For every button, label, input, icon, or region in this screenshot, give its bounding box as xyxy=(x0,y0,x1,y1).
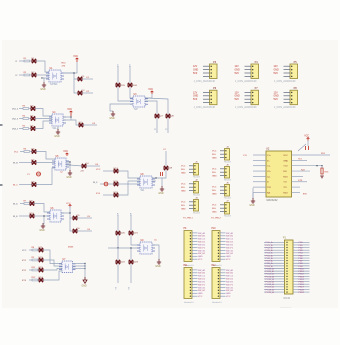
svg-text:U2: U2 xyxy=(266,147,270,151)
svg-text:SW_C1: SW_C1 xyxy=(198,239,206,241)
ground xyxy=(39,223,45,232)
svg-text:Headr3: Headr3 xyxy=(193,212,201,215)
wire xyxy=(19,215,30,217)
wire xyxy=(83,124,97,126)
wire xyxy=(321,166,323,168)
svg-text:GND: GND xyxy=(109,118,114,120)
svg-text:SW_E1: SW_E1 xyxy=(198,244,206,246)
svg-text:VCC: VCC xyxy=(212,151,217,153)
wire xyxy=(118,181,140,195)
wire xyxy=(86,165,100,167)
wire xyxy=(117,66,119,83)
svg-text:J_CON_JACKDC40: J_CON_JACKDC40 xyxy=(235,80,257,83)
wire xyxy=(145,98,168,114)
wire xyxy=(108,183,114,185)
wire xyxy=(152,178,162,184)
svg-text:SW_B1: SW_B1 xyxy=(198,236,206,238)
wire xyxy=(253,181,266,183)
wire xyxy=(43,269,62,271)
svg-text:Header10: Header10 xyxy=(212,301,222,304)
svg-text:SW_D1: SW_D1 xyxy=(198,242,206,244)
svg-text:VCC: VCC xyxy=(198,296,203,298)
diode D5 xyxy=(31,125,36,130)
diode D12 xyxy=(39,257,44,262)
svg-text:GND: GND xyxy=(212,158,217,160)
svg-text:SW_H1: SW_H1 xyxy=(226,253,234,255)
connector P5 xyxy=(274,61,298,83)
wire xyxy=(34,215,50,217)
junction xyxy=(69,161,70,162)
opto-coupler U9 xyxy=(137,240,155,254)
svg-text:T1O: T1O xyxy=(283,166,287,168)
svg-text:J_CON_JACKDC40: J_CON_JACKDC40 xyxy=(194,106,216,109)
wire xyxy=(19,118,23,120)
diode D11 xyxy=(39,247,44,252)
connector J2 xyxy=(181,180,201,197)
svg-text:GND: GND xyxy=(226,256,231,258)
wire xyxy=(84,264,86,278)
svg-text:DTR: DTR xyxy=(298,180,303,182)
wire xyxy=(70,218,73,231)
resistor R13 xyxy=(321,168,329,174)
junction xyxy=(73,72,74,73)
wire xyxy=(29,128,31,130)
diode D4 xyxy=(31,115,36,120)
svg-text:R2I: R2I xyxy=(267,192,271,194)
svg-text:SW_A1: SW_A1 xyxy=(198,269,206,272)
svg-text:GND: GND xyxy=(212,194,217,196)
svg-text:~~~~~~~: ~~~~~~~ xyxy=(280,305,292,309)
svg-text:PC16_A: PC16_A xyxy=(266,283,275,286)
wire xyxy=(19,74,24,76)
svg-text:GND: GND xyxy=(198,293,203,295)
svg-text:4N35: 4N35 xyxy=(68,247,74,249)
ground xyxy=(249,198,255,207)
svg-text:SIG: SIG xyxy=(212,208,216,210)
svg-text:TLP: TLP xyxy=(134,109,139,111)
transistor Q1 xyxy=(78,76,85,81)
resistor R7 xyxy=(24,200,30,204)
wire xyxy=(156,118,158,133)
svg-text:5V0: 5V0 xyxy=(193,73,198,75)
svg-text:T2O: T2O xyxy=(267,187,271,189)
svg-text:VCC: VCC xyxy=(226,259,231,261)
wire xyxy=(30,151,32,153)
svg-text:J_CON_JACKDC40: J_CON_JACKDC40 xyxy=(274,80,296,83)
svg-text:12V: 12V xyxy=(235,92,240,94)
wire xyxy=(252,188,254,199)
connector P6 xyxy=(193,87,217,109)
svg-text:12V: 12V xyxy=(193,66,198,68)
svg-text:R1I: R1I xyxy=(283,171,287,173)
ground xyxy=(82,277,88,288)
svg-text:SW_D1: SW_D1 xyxy=(226,279,234,281)
ground xyxy=(158,186,164,195)
svg-text:TO_PNL1: TO_PNL1 xyxy=(183,218,193,220)
junction xyxy=(84,268,85,269)
svg-text:VCC: VCC xyxy=(283,155,288,157)
svg-text:R1O: R1O xyxy=(283,176,288,178)
wire xyxy=(37,259,40,261)
svg-text:GND: GND xyxy=(82,286,87,288)
svg-text:J_CON_JACKDC40: J_CON_JACKDC40 xyxy=(194,80,216,83)
diode D14 xyxy=(39,277,44,282)
wire xyxy=(253,154,266,156)
svg-text:SW_F1: SW_F1 xyxy=(198,284,206,286)
wire xyxy=(292,170,311,172)
connector P12 xyxy=(212,265,235,304)
svg-text:GND: GND xyxy=(155,266,160,268)
power VCC xyxy=(67,109,72,116)
svg-text:VCC: VCC xyxy=(181,166,186,168)
connector P11 xyxy=(184,265,207,304)
connector P1 xyxy=(264,237,310,300)
wire xyxy=(20,151,24,153)
junction xyxy=(117,247,118,248)
svg-text:SW_E1: SW_E1 xyxy=(226,281,234,283)
svg-text:GND: GND xyxy=(249,205,254,207)
power VCC xyxy=(73,56,78,62)
diode D17 xyxy=(114,168,119,173)
svg-text:Headr3: Headr3 xyxy=(224,197,232,200)
diode D2 xyxy=(32,72,37,77)
wire xyxy=(74,79,78,93)
svg-text:GND: GND xyxy=(181,191,186,193)
wire xyxy=(292,159,308,161)
svg-text:PC13_A: PC13_A xyxy=(266,275,275,278)
wire xyxy=(70,165,82,166)
diode D21 xyxy=(129,231,139,235)
svg-text:GND: GND xyxy=(193,96,198,98)
ground xyxy=(54,129,60,138)
transistor Q6 xyxy=(73,228,80,233)
wire xyxy=(82,92,93,94)
wire xyxy=(43,216,44,224)
svg-text:VCC: VCC xyxy=(226,296,231,298)
svg-text:VCC: VCC xyxy=(67,109,72,111)
diode D23 xyxy=(129,260,139,264)
svg-text:IN_F: IN_F xyxy=(93,182,98,184)
svg-text:IN_B: IN_B xyxy=(13,163,18,165)
wire xyxy=(69,166,71,171)
wire xyxy=(100,183,104,185)
diode D22 xyxy=(116,260,126,264)
svg-text:Headr3: Headr3 xyxy=(224,179,232,182)
svg-text:1N2_2: 1N2_2 xyxy=(12,119,19,121)
svg-text:PC7_A: PC7_A xyxy=(266,260,273,263)
svg-text:SW_D1: SW_D1 xyxy=(198,279,206,281)
svg-text:PC15_A: PC15_A xyxy=(266,281,275,284)
connector P8 xyxy=(274,87,298,109)
wire xyxy=(252,193,254,199)
svg-text:GND: GND xyxy=(66,177,71,179)
svg-text:PC0_A: PC0_A xyxy=(266,241,273,244)
wire xyxy=(165,151,167,166)
wire xyxy=(152,180,156,182)
connector J5 xyxy=(212,165,232,182)
net label edge mark xyxy=(0,184,3,186)
wire xyxy=(63,120,79,125)
opto-coupler U8 xyxy=(137,174,155,192)
wire xyxy=(29,108,31,110)
svg-text:IN_D: IN_D xyxy=(13,204,18,206)
svg-text:SW_A1: SW_A1 xyxy=(226,269,234,272)
svg-text:SIG: SIG xyxy=(181,169,185,171)
svg-text:PC17_A: PC17_A xyxy=(266,286,275,289)
wire xyxy=(43,271,62,280)
svg-text:PC11_A: PC11_A xyxy=(266,270,275,273)
opto-coupler U3 xyxy=(130,94,148,111)
svg-text:J_CON_JACKDC40: J_CON_JACKDC40 xyxy=(235,106,257,109)
diode D6 xyxy=(32,148,37,153)
junction xyxy=(155,177,156,178)
diode D9 xyxy=(30,200,35,205)
svg-text:R2O: R2O xyxy=(283,192,288,194)
connector J7 xyxy=(212,201,232,218)
junction xyxy=(70,116,71,117)
svg-text:VCC: VCC xyxy=(181,202,186,204)
svg-text:SIG: SIG xyxy=(181,187,185,189)
wire xyxy=(292,181,308,183)
svg-text:Headr3: Headr3 xyxy=(224,215,232,218)
svg-text:SW_B1: SW_B1 xyxy=(226,273,234,275)
wire xyxy=(36,61,49,72)
svg-text:Headr3: Headr3 xyxy=(193,176,201,179)
wire xyxy=(292,154,331,156)
wire xyxy=(145,94,152,98)
svg-text:SIG: SIG xyxy=(181,205,185,207)
svg-text:GND: GND xyxy=(274,96,279,98)
svg-text:Header10: Header10 xyxy=(184,301,194,304)
svg-text:+5V: +5V xyxy=(80,171,84,173)
wire xyxy=(103,194,114,196)
wire xyxy=(30,60,32,62)
resistor R6 xyxy=(24,148,30,152)
svg-text:5V0: 5V0 xyxy=(274,73,279,75)
svg-text:Headr3: Headr3 xyxy=(224,161,232,164)
svg-text:SW_E1: SW_E1 xyxy=(198,281,206,283)
svg-text:VCC: VCC xyxy=(212,169,217,171)
wire xyxy=(307,141,309,147)
wire xyxy=(57,126,59,130)
transistor Q7 xyxy=(155,114,164,118)
wire xyxy=(29,259,32,261)
svg-text:5V0: 5V0 xyxy=(274,99,279,101)
svg-text:T1O: T1O xyxy=(298,159,302,161)
diode D15 xyxy=(116,83,126,87)
wire xyxy=(292,191,301,193)
wire xyxy=(35,121,52,129)
svg-text:PC2_A: PC2_A xyxy=(266,246,273,249)
wire xyxy=(73,268,86,270)
wire xyxy=(253,165,266,167)
capacitor C4 xyxy=(161,172,163,176)
wire xyxy=(73,265,86,267)
svg-text:PC1_A: PC1_A xyxy=(266,244,273,247)
wire xyxy=(37,269,40,271)
wire xyxy=(292,186,301,188)
svg-text:SW_F1: SW_F1 xyxy=(198,247,206,249)
resistor R3 xyxy=(23,105,29,109)
svg-text:SIG: SIG xyxy=(212,172,216,174)
connector J4 xyxy=(212,147,232,164)
svg-text:VCC: VCC xyxy=(181,184,186,186)
transistor Q5 xyxy=(73,215,80,220)
wire xyxy=(19,128,23,130)
svg-text:VCC: VCC xyxy=(148,89,153,91)
svg-text:SW_F1: SW_F1 xyxy=(226,247,234,249)
svg-text:SW_H1: SW_H1 xyxy=(198,290,206,292)
svg-text:SW_G1: SW_G1 xyxy=(226,250,234,252)
svg-text:VCC: VCC xyxy=(212,187,217,189)
wire xyxy=(130,87,133,98)
wire xyxy=(118,235,140,248)
opto-coupler U1 xyxy=(46,68,64,86)
svg-text:TO_PNL2: TO_PNL2 xyxy=(211,218,221,220)
svg-text:SW_D1: SW_D1 xyxy=(226,242,234,244)
wire xyxy=(110,104,133,111)
svg-text:GND: GND xyxy=(40,89,45,91)
svg-text:GND: GND xyxy=(235,96,240,98)
wire xyxy=(117,248,119,260)
svg-text:IN_C: IN_C xyxy=(13,185,18,187)
svg-text:GND: GND xyxy=(274,70,279,72)
wire xyxy=(29,279,32,281)
wire xyxy=(73,263,86,265)
wire xyxy=(19,108,23,110)
svg-text:SW_B1: SW_B1 xyxy=(198,273,206,275)
svg-text:SW_F1: SW_F1 xyxy=(226,284,234,286)
wire xyxy=(118,171,140,178)
wire xyxy=(118,87,133,101)
wire xyxy=(103,170,114,172)
ground xyxy=(155,259,161,268)
wire xyxy=(292,175,304,177)
capacitor C3 xyxy=(104,182,108,186)
wire xyxy=(64,73,78,79)
resistor R1 xyxy=(24,58,30,62)
svg-text:T2I: T2I xyxy=(283,187,286,189)
svg-text:P10: P10 xyxy=(212,228,217,230)
wire xyxy=(292,165,323,167)
wire xyxy=(131,235,140,245)
capacitor C1 xyxy=(27,172,41,176)
svg-text:SW_H1: SW_H1 xyxy=(226,290,234,292)
wire xyxy=(64,62,77,73)
connector P10 xyxy=(212,228,235,267)
svg-text:PC8_A: PC8_A xyxy=(266,262,273,265)
svg-text:12V: 12V xyxy=(274,92,279,94)
svg-text:PC6_A: PC6_A xyxy=(266,257,273,260)
svg-text:VCC: VCC xyxy=(212,205,217,207)
svg-text:5V0: 5V0 xyxy=(235,99,240,101)
resistor R9 xyxy=(32,257,38,261)
connector P3 xyxy=(193,61,217,83)
wire xyxy=(37,249,40,251)
svg-text:PC3_A: PC3_A xyxy=(266,249,273,252)
svg-text:12V: 12V xyxy=(235,66,240,68)
svg-text:GND: GND xyxy=(181,209,186,211)
svg-text:SW_C1: SW_C1 xyxy=(198,276,206,278)
wire xyxy=(117,264,119,283)
svg-text:GND: GND xyxy=(283,160,288,162)
svg-text:GND: GND xyxy=(193,70,198,72)
svg-text:V-: V- xyxy=(267,182,269,184)
diode D8 xyxy=(32,181,37,186)
resistor R4 xyxy=(23,115,29,119)
wire xyxy=(30,74,32,76)
svg-text:SW_G1: SW_G1 xyxy=(226,287,234,289)
svg-text:Headr3: Headr3 xyxy=(193,194,201,197)
svg-text:VCC: VCC xyxy=(73,56,78,58)
diode D19 xyxy=(114,192,119,197)
wire xyxy=(36,162,55,164)
svg-text:GND: GND xyxy=(235,70,240,72)
opto-coupler U6 xyxy=(47,208,64,222)
connector P4 xyxy=(235,61,259,83)
diode D10 xyxy=(30,213,35,218)
connector J3 xyxy=(181,198,201,215)
resistor R5 xyxy=(23,125,29,129)
wire xyxy=(298,144,306,151)
wire xyxy=(130,215,132,231)
svg-text:VCC: VCC xyxy=(198,259,203,261)
wire xyxy=(70,213,73,218)
svg-text:TLP521: TLP521 xyxy=(50,84,59,86)
svg-text:SIG: SIG xyxy=(212,154,216,156)
wire xyxy=(167,118,169,133)
wire xyxy=(118,183,140,185)
svg-text:GND: GND xyxy=(212,212,217,214)
wire xyxy=(66,165,70,166)
wire xyxy=(19,162,32,164)
diode D1 xyxy=(32,58,37,63)
wire xyxy=(42,78,44,82)
wire xyxy=(161,184,163,187)
svg-text:P12: P12 xyxy=(212,265,217,267)
svg-text:PB19: PB19 xyxy=(299,292,305,294)
wire xyxy=(43,250,62,264)
svg-text:VCC: VCC xyxy=(22,250,27,252)
junction xyxy=(84,263,85,264)
svg-text:GND: GND xyxy=(226,293,231,295)
svg-text:1N3_2: 1N3_2 xyxy=(12,129,19,131)
svg-text:GND: GND xyxy=(54,136,59,138)
svg-text:GND: GND xyxy=(212,176,217,178)
wire xyxy=(129,66,131,83)
svg-text:PC12_A: PC12_A xyxy=(266,273,275,276)
wire xyxy=(61,206,70,213)
wire xyxy=(117,215,119,231)
transistor Q4 xyxy=(82,163,89,168)
power VCC xyxy=(148,89,153,94)
svg-text:J_CON_JACKDC40: J_CON_JACKDC40 xyxy=(274,106,296,109)
wire xyxy=(253,186,266,188)
wire xyxy=(29,203,31,205)
wire xyxy=(130,248,132,260)
wire xyxy=(29,118,31,120)
wire xyxy=(145,101,157,114)
svg-text:PC18_A: PC18_A xyxy=(266,288,275,291)
svg-text:SW_A1: SW_A1 xyxy=(198,232,206,235)
wire xyxy=(36,152,55,160)
svg-text:5V0: 5V0 xyxy=(235,73,240,75)
wire xyxy=(253,170,266,172)
junction xyxy=(69,212,70,213)
resistor R12 xyxy=(32,277,38,281)
wire xyxy=(43,260,62,266)
wire xyxy=(253,159,266,161)
